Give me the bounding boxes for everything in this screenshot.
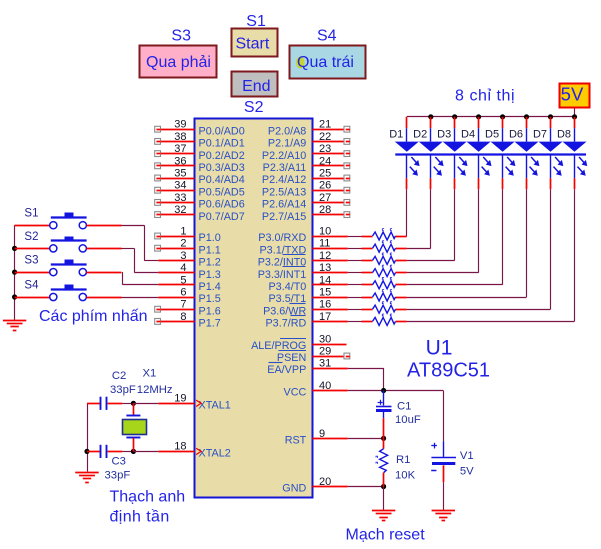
svg-text:S1: S1 (24, 208, 38, 220)
svg-text:P2.3/A11: P2.3/A11 (263, 162, 307, 174)
svg-text:Mạch reset: Mạch reset (346, 527, 426, 544)
svg-text:S2: S2 (244, 99, 264, 116)
svg-text:33: 33 (174, 192, 186, 204)
svg-text:P1.5: P1.5 (199, 293, 221, 305)
svg-text:S4: S4 (317, 27, 337, 44)
svg-text:27: 27 (319, 192, 331, 204)
svg-text:S1: S1 (246, 13, 266, 30)
svg-text:19: 19 (174, 392, 186, 404)
svg-text:5V: 5V (460, 465, 474, 477)
svg-text:XTAL1: XTAL1 (199, 400, 231, 412)
svg-text:22: 22 (319, 131, 331, 143)
svg-text:P1.2: P1.2 (199, 257, 221, 269)
svg-text:R1: R1 (396, 454, 410, 466)
svg-text:P1.4: P1.4 (199, 281, 221, 293)
svg-text:D1: D1 (389, 128, 403, 140)
svg-text:28: 28 (319, 204, 331, 216)
svg-text:38: 38 (174, 131, 186, 143)
svg-text:12MHz: 12MHz (137, 384, 173, 396)
svg-text:P2.4/A12: P2.4/A12 (262, 174, 306, 186)
svg-text:End: End (242, 78, 270, 95)
svg-text:23: 23 (319, 143, 331, 155)
svg-text:C1: C1 (397, 401, 411, 413)
svg-text:XTAL2: XTAL2 (199, 448, 231, 460)
svg-text:D2: D2 (413, 128, 427, 140)
svg-text:Qua trái: Qua trái (297, 54, 354, 71)
svg-text:S3: S3 (24, 255, 38, 267)
svg-text:V1: V1 (460, 450, 474, 462)
svg-text:P0.4/AD4: P0.4/AD4 (199, 174, 245, 186)
svg-text:GND: GND (282, 483, 306, 495)
svg-text:21: 21 (319, 119, 331, 131)
svg-text:P1.6: P1.6 (199, 305, 221, 317)
svg-text:P0.3/AD3: P0.3/AD3 (199, 162, 245, 174)
svg-text:ALE/PROG: ALE/PROG (251, 340, 306, 352)
svg-text:26: 26 (319, 180, 331, 192)
svg-text:P2.7/A15: P2.7/A15 (262, 211, 306, 223)
svg-text:10uF: 10uF (395, 414, 421, 426)
svg-text:D6: D6 (509, 128, 523, 140)
svg-text:34: 34 (174, 180, 186, 192)
svg-text:10K: 10K (395, 470, 416, 482)
svg-text:P0.7/AD7: P0.7/AD7 (199, 211, 245, 223)
svg-text:33pF: 33pF (110, 384, 136, 396)
svg-text:24: 24 (319, 155, 331, 167)
svg-text:P2.5/A13: P2.5/A13 (262, 186, 306, 198)
svg-text:P3.7/RD: P3.7/RD (265, 318, 306, 330)
svg-text:PSEN: PSEN (277, 352, 306, 364)
svg-text:D5: D5 (485, 128, 499, 140)
svg-text:P1.7: P1.7 (199, 318, 221, 330)
svg-text:RST: RST (285, 435, 307, 447)
svg-text:D4: D4 (461, 128, 475, 140)
svg-text:Qua phải: Qua phải (146, 54, 211, 71)
svg-text:P2.0/A8: P2.0/A8 (268, 125, 306, 137)
svg-text:39: 39 (174, 119, 186, 131)
svg-text:P1.1: P1.1 (199, 244, 221, 256)
svg-text:AT89C51: AT89C51 (407, 360, 490, 382)
svg-text:P0.6/AD6: P0.6/AD6 (199, 199, 245, 211)
svg-text:P2.1/A9: P2.1/A9 (268, 138, 306, 150)
svg-text:Start: Start (236, 35, 270, 52)
svg-text:P3.3/INT1: P3.3/INT1 (258, 269, 307, 281)
svg-text:32: 32 (174, 204, 186, 216)
svg-text:37: 37 (174, 143, 186, 155)
svg-text:S3: S3 (171, 27, 191, 44)
svg-text:X1: X1 (143, 368, 157, 380)
svg-text:P0.5/AD5: P0.5/AD5 (199, 186, 245, 198)
svg-text:D3: D3 (437, 128, 451, 140)
svg-text:Thạch anh: Thạch anh (110, 489, 186, 506)
svg-text:S2: S2 (24, 231, 38, 243)
svg-text:35: 35 (174, 168, 186, 180)
svg-text:P0.2/AD2: P0.2/AD2 (199, 150, 245, 162)
svg-text:P2.6/A14: P2.6/A14 (262, 199, 306, 211)
svg-text:P3.4/T0: P3.4/T0 (268, 281, 306, 293)
svg-text:36: 36 (174, 155, 186, 167)
svg-text:5V: 5V (561, 83, 584, 104)
svg-text:S4: S4 (24, 280, 39, 292)
svg-text:P0.1/AD1: P0.1/AD1 (199, 138, 245, 150)
svg-text:8 chỉ thị: 8 chỉ thị (455, 88, 515, 105)
svg-text:25: 25 (319, 168, 331, 180)
svg-text:định tần: định tần (110, 509, 170, 526)
svg-text:D8: D8 (557, 128, 571, 140)
svg-text:18: 18 (174, 440, 186, 452)
svg-text:P1.3: P1.3 (199, 269, 221, 281)
svg-text:U1: U1 (426, 336, 453, 359)
svg-text:P0.0/AD0: P0.0/AD0 (199, 125, 245, 137)
svg-text:Các phím nhấn: Các phím nhấn (39, 308, 148, 325)
svg-text:C2: C2 (112, 370, 126, 382)
svg-text:C3: C3 (112, 456, 126, 468)
svg-text:P1.0: P1.0 (199, 232, 221, 244)
svg-text:D7: D7 (533, 128, 547, 140)
svg-text:P2.2/A10: P2.2/A10 (262, 150, 306, 162)
svg-text:P3.0/RXD: P3.0/RXD (258, 232, 306, 244)
svg-text:33pF: 33pF (105, 470, 131, 482)
svg-text:VCC: VCC (284, 387, 307, 399)
svg-text:EA/VPP: EA/VPP (267, 364, 306, 376)
